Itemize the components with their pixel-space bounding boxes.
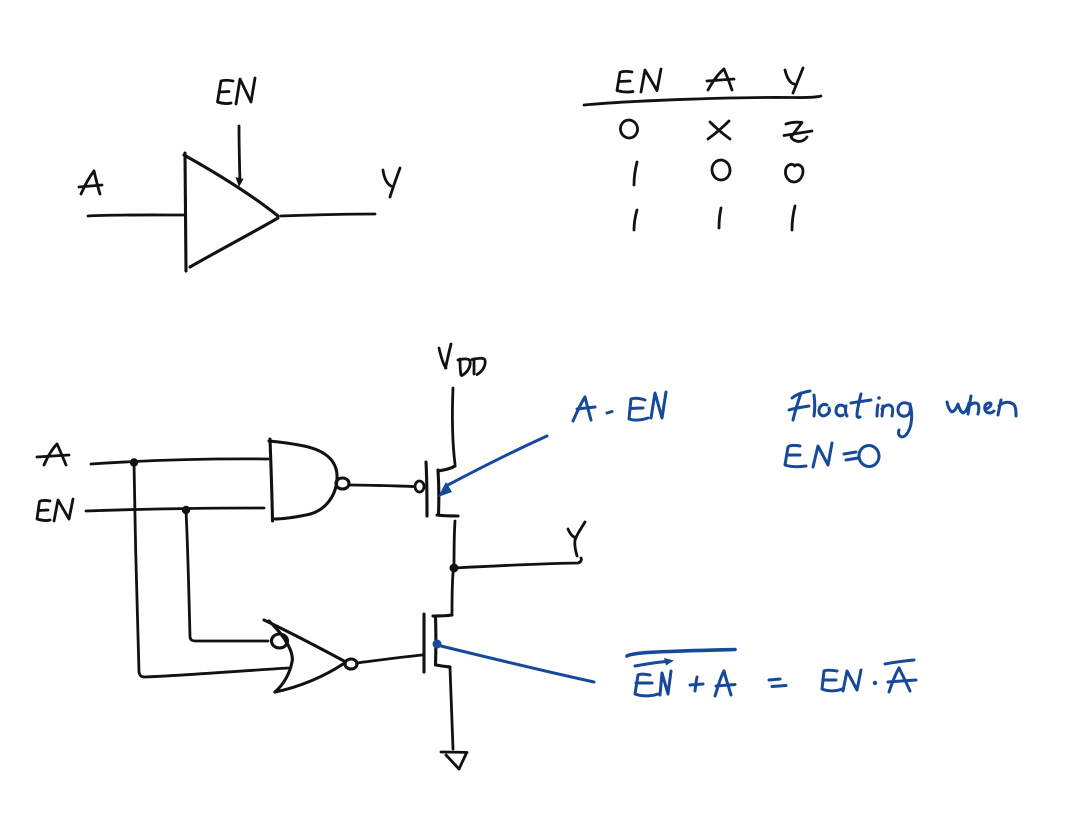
row2 value A=0 bbox=[711, 159, 732, 181]
wire NAND output to M1 gate bbox=[350, 485, 414, 487]
wire VDD to M1 source bbox=[452, 388, 455, 464]
table header label A bbox=[707, 69, 734, 90]
wire net EN bbox=[86, 508, 264, 511]
annotation equals (blue) bbox=[769, 679, 786, 687]
label Y (buffer output) bbox=[383, 168, 400, 197]
blue dot M2 gate bbox=[433, 640, 442, 649]
label Y (node Y) bbox=[568, 522, 585, 556]
row1 value Y=Z bbox=[784, 122, 812, 141]
wire node Y to M2 drain bbox=[452, 573, 453, 613]
row1 value A=X bbox=[708, 121, 730, 139]
wire A to buffer bbox=[88, 215, 184, 216]
row3 value A=1 bbox=[719, 208, 721, 228]
table header rule bbox=[584, 96, 821, 105]
row3 value EN=1 bbox=[634, 210, 637, 230]
arrowhead EN stem bbox=[236, 177, 244, 187]
junction net A bbox=[130, 458, 138, 466]
label EN (net EN) bbox=[37, 499, 73, 521]
table header label Y bbox=[785, 68, 803, 93]
PMOS M1 bbox=[426, 462, 458, 516]
wire net A bbox=[91, 459, 268, 464]
label A (net A) bbox=[37, 444, 69, 465]
annotation A·EN (blue) bbox=[573, 392, 666, 421]
annotation overline(EN+A) (blue) bbox=[627, 650, 735, 697]
wire net EN branch down to NOR bbox=[186, 510, 268, 641]
annotation EN=0 (blue) bbox=[785, 443, 880, 468]
NOR gate U3 bbox=[264, 620, 344, 692]
wire M2 source to ground bbox=[450, 668, 453, 749]
wire net A branch down to NOR bbox=[134, 463, 288, 677]
annotation pointer line to M2 gate (blue) bbox=[441, 646, 594, 682]
wire M1 drain to node Y bbox=[454, 521, 455, 567]
wire node Y output bbox=[454, 558, 581, 568]
NMOS M2 bbox=[424, 614, 452, 672]
row2 value Y=0 bbox=[785, 164, 803, 182]
junction node Y bbox=[450, 564, 459, 573]
wire EN stem into buffer bbox=[239, 126, 240, 182]
wire NOR output to M2 gate bbox=[357, 655, 422, 663]
arrowhead blue M1 bbox=[438, 482, 452, 497]
PMOS M1 gate bubble bbox=[415, 481, 424, 492]
label EN (buffer enable) bbox=[218, 78, 256, 104]
NAND gate U2 bbox=[269, 439, 337, 521]
row3 value Y=1 bbox=[792, 206, 795, 230]
annotation Floating when (blue) bbox=[789, 391, 1016, 437]
NOR output bubble bbox=[345, 659, 357, 669]
wire buffer output Y bbox=[281, 214, 375, 216]
NOR input bubble (inverted EN input) bbox=[272, 634, 288, 648]
NAND output bubble bbox=[336, 478, 349, 489]
tri-state buffer U1 bbox=[184, 153, 278, 271]
annotation arrow at M1 gate (blue) bbox=[446, 436, 547, 486]
junction net EN bbox=[182, 506, 190, 514]
table header label EN bbox=[617, 69, 661, 92]
label VDD bbox=[439, 344, 485, 376]
row2 value EN=1 bbox=[634, 162, 637, 185]
annotation EN·Abar (blue) bbox=[822, 660, 916, 692]
label A (buffer input) bbox=[79, 171, 102, 194]
row1 value EN=0 bbox=[619, 119, 639, 140]
ground bbox=[441, 752, 467, 769]
